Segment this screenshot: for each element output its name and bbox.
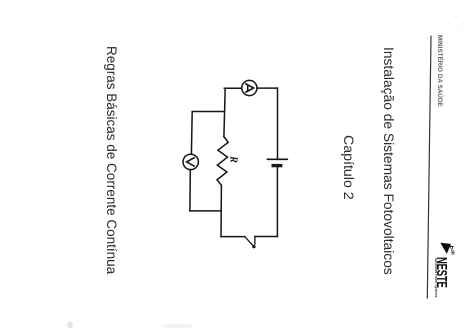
- title: Instalação de Sistemas Fotovoltaicos: [381, 47, 395, 275]
- wire battery branch upper vertical: [277, 88, 279, 159]
- ammeter U1 circle: [242, 80, 257, 95]
- voltmeter U2 circle: [183, 154, 198, 169]
- scan smudge bottom left: [67, 322, 73, 329]
- header text: MINISTÉRIO DA SAÚDE: [436, 35, 442, 107]
- wire resistor branch upper vertical: [224, 88, 225, 136]
- switch S1 blade: [245, 236, 254, 246]
- svg-text:R: R: [228, 155, 239, 163]
- wire voltmeter loop bottom horizontal: [190, 210, 221, 212]
- battery B1 short thick plate: [272, 164, 283, 167]
- header rule line: [427, 36, 431, 298]
- switch S1 contact dot: [252, 245, 255, 248]
- wire voltmeter loop left lower vertical: [189, 170, 191, 211]
- wire bottom right segment: [255, 236, 278, 238]
- subtitle: Capítulo 2: [340, 135, 354, 200]
- resistor R zigzag: [217, 137, 228, 186]
- wire top right (ammeter to battery branch): [257, 87, 278, 89]
- wire battery branch lower vertical: [276, 167, 278, 236]
- ammeter label A: [245, 84, 253, 93]
- wire voltmeter loop left upper vertical: [190, 112, 193, 155]
- faint scan streak bottom: [162, 324, 194, 329]
- wire voltmeter loop top horizontal: [192, 111, 224, 113]
- wire top left (node to ammeter): [224, 87, 242, 89]
- logo text: NESTE: [433, 257, 448, 288]
- switch S1 fixed contact stub: [254, 237, 256, 245]
- wire resistor branch lower vertical: [220, 185, 222, 236]
- battery B1 long plate: [267, 158, 287, 160]
- scan specks top right: [455, 16, 457, 18]
- logo text: Advanced Power Systems: [433, 258, 437, 297]
- wire bottom left segment: [221, 236, 245, 238]
- NESTE logo triangle mark: [440, 243, 454, 255]
- heading: Regras Básicas de Corrente Contínua: [105, 46, 119, 274]
- voltmeter label V: [187, 157, 195, 166]
